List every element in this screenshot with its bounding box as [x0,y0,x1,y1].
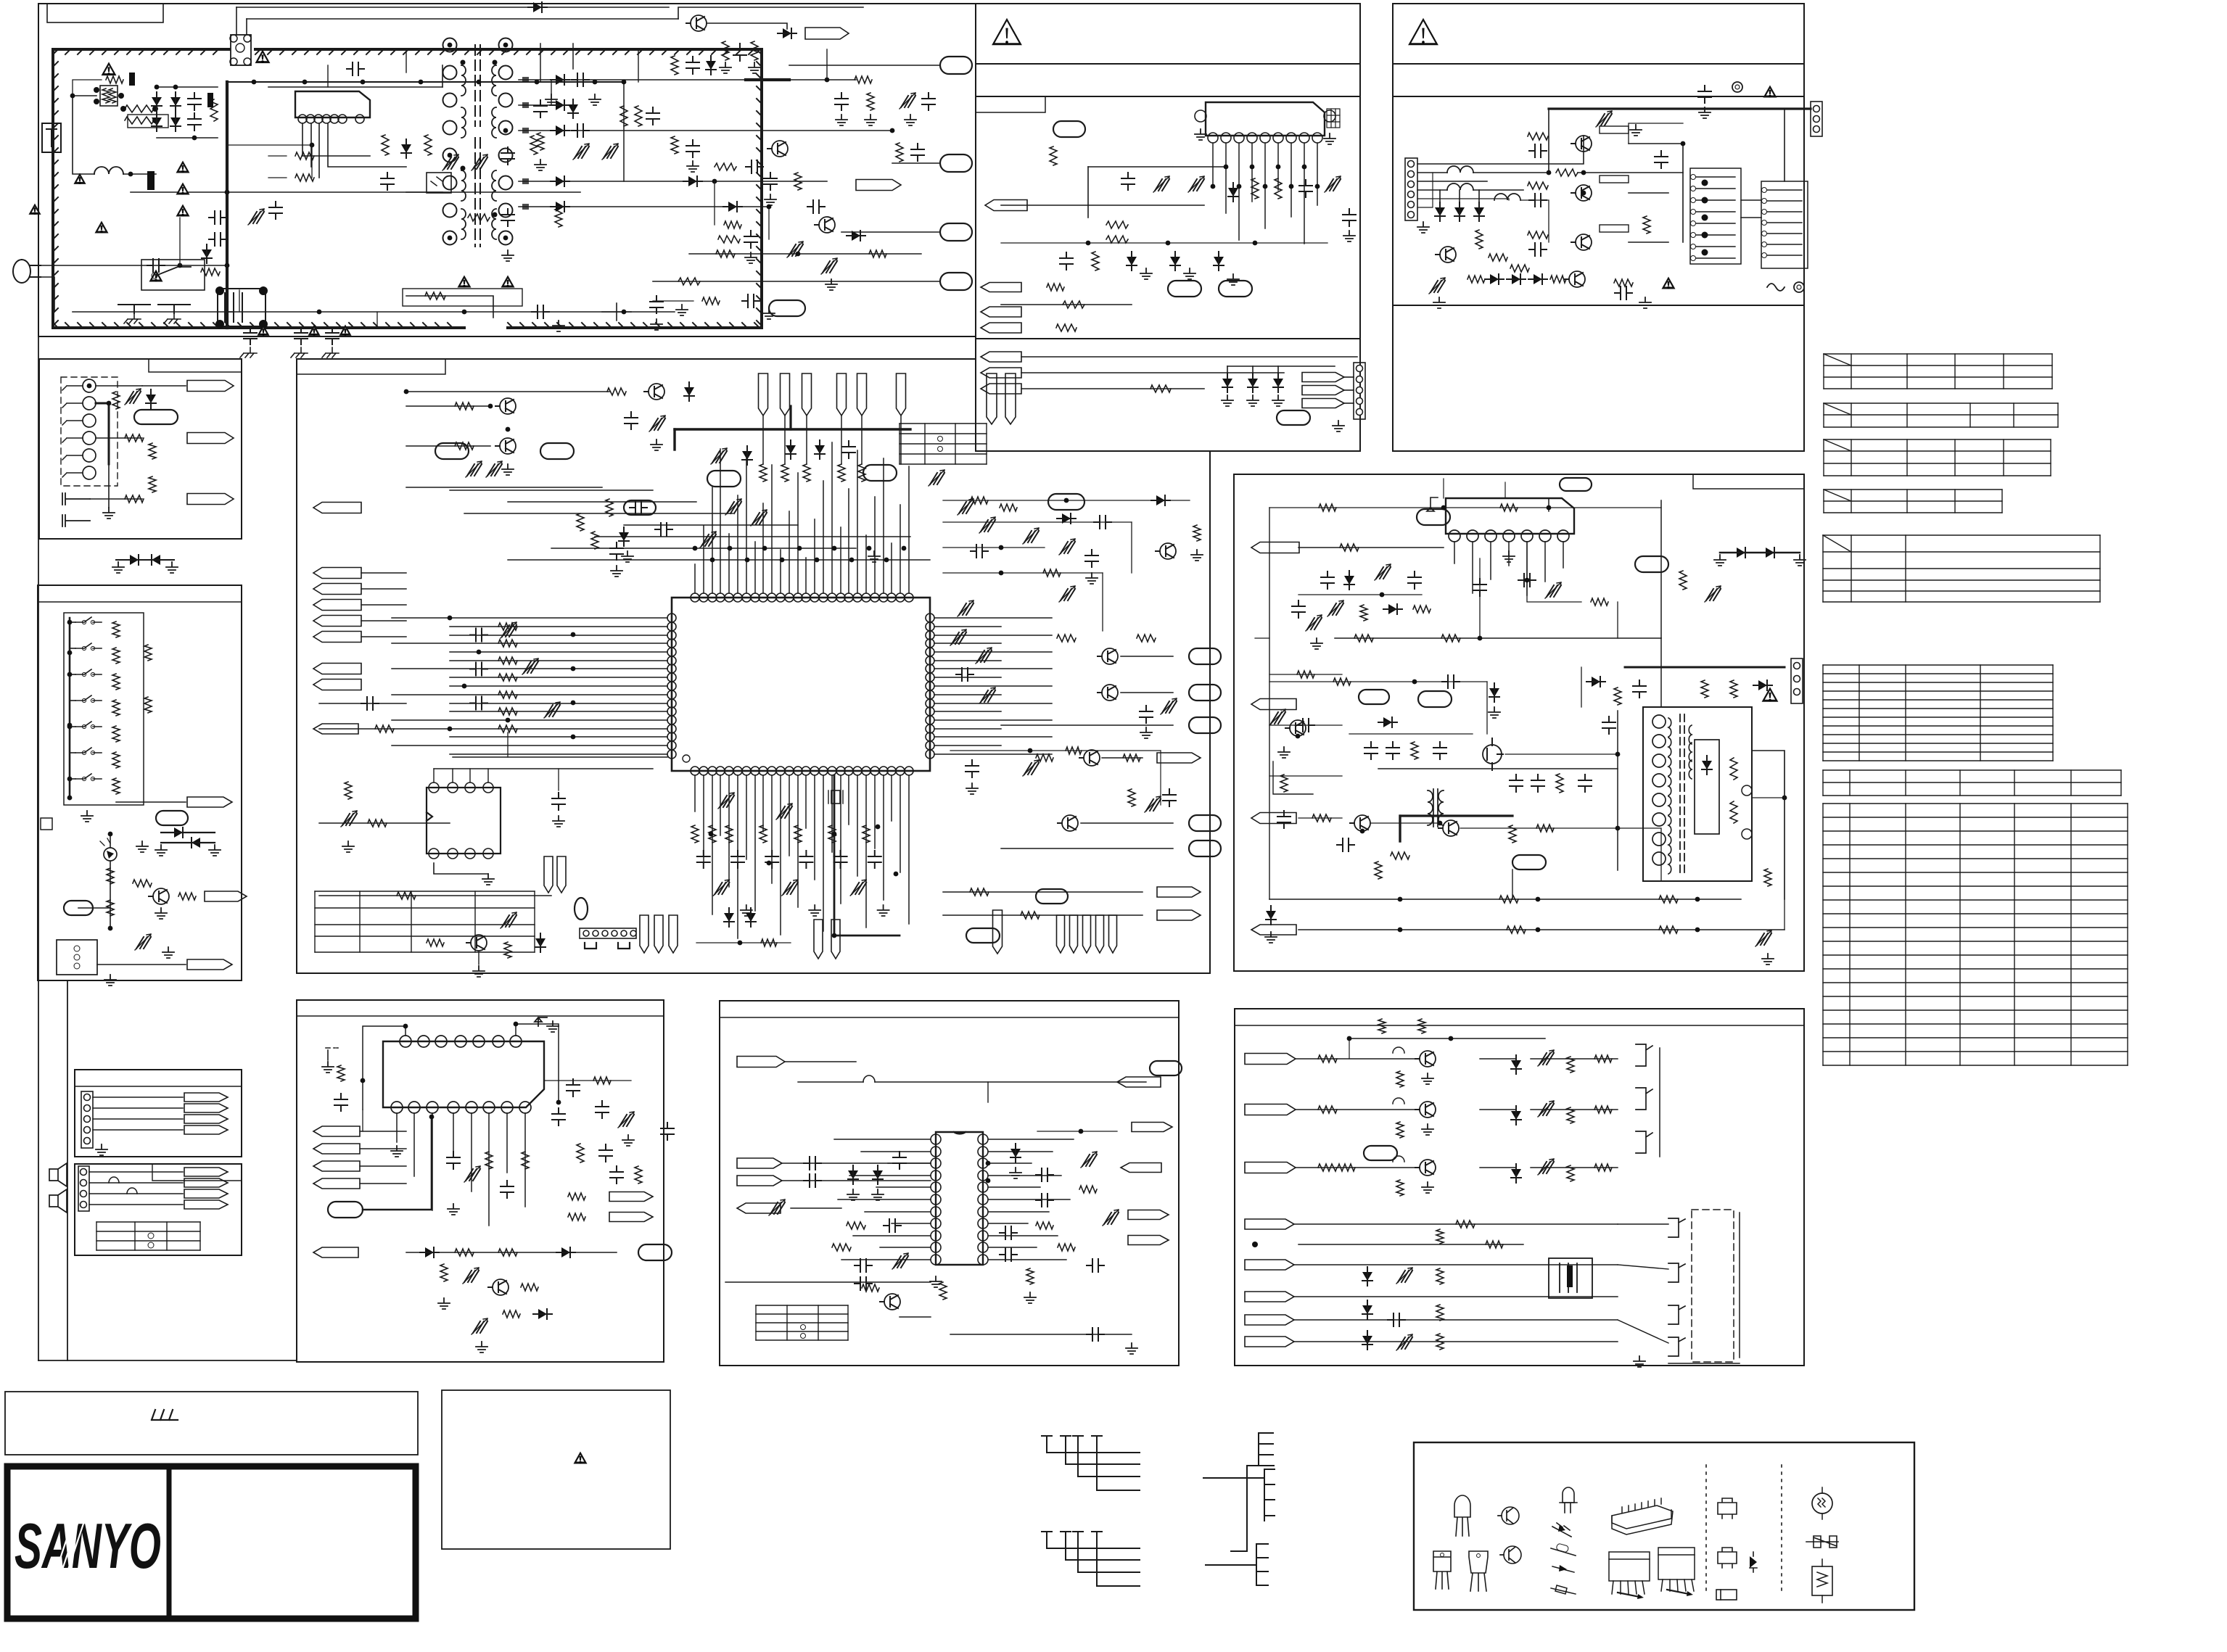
junction [361,80,366,85]
junction [361,1078,366,1083]
AV jack block frame [39,359,242,539]
connector arrow [609,1213,653,1222]
relay RL701 [231,35,251,65]
junction [986,1161,991,1166]
arrow mute [313,1247,358,1257]
bottom 6pin connector [580,928,636,938]
legend SMD diode [1750,1556,1757,1568]
junction [67,651,73,656]
wire HV to transformer [268,86,442,88]
IF table circles [801,1325,806,1330]
wire [1505,753,1618,755]
oval label [134,410,178,424]
pin wire [784,416,786,464]
ground [1227,274,1239,285]
ground [482,874,494,885]
resistor [1312,814,1331,822]
center arrow in 2 [313,584,361,595]
capacitor [501,209,514,226]
CRT arrow 2 [1245,1104,1296,1115]
wire spk [89,1193,183,1194]
deflection label box [1693,474,1804,489]
trimmer mark [1024,763,1039,775]
FBT core [1680,714,1684,874]
connector [1168,281,1201,297]
output connector B+ [940,57,972,74]
board pin top 8 [1005,373,1016,424]
trimmer/preset [1061,542,1075,553]
resistor [1411,742,1418,759]
wire [1252,366,1254,373]
wire [110,834,111,847]
resistor [724,221,741,228]
CRT drive transistor 1 [1420,1051,1436,1067]
warning triangle [73,173,86,184]
top-right header line [1393,63,1804,65]
diode [535,938,546,947]
wire [1131,522,1132,573]
trimmer mark [546,705,560,716]
resistor [1594,1164,1612,1171]
trimmer/preset [894,1256,908,1268]
ground [547,1021,559,1032]
pin group r4 [1109,915,1117,953]
arrow AUDIO [187,433,234,444]
audio IC side pins [1195,110,1206,122]
wire [1741,217,1761,218]
trimmer/preset [1757,933,1771,945]
junction [310,143,315,148]
resistor [1318,1055,1337,1062]
transistor Q410 [1102,648,1118,664]
legend transistor sym 1 [1502,1507,1519,1524]
ground [1140,727,1152,738]
diode pair box [161,833,215,843]
sound wires down [1212,143,1214,186]
bus junction [902,546,907,551]
key bus [69,618,71,799]
bottom cap [799,851,812,868]
diode [1388,604,1397,614]
trimmer/preset [473,1321,487,1333]
arrow [205,891,247,901]
trimmer mark [981,690,995,702]
connector arrow [313,680,361,690]
wire [90,498,142,500]
junction [252,80,257,85]
AC plug [13,260,41,283]
main IC right pins [926,614,934,622]
resistor [1436,1305,1444,1321]
junction [622,80,627,85]
resistor [678,278,700,285]
capacitor [1337,838,1354,851]
resistor [1333,678,1351,685]
arrow VIDEO [187,381,234,392]
key switch 1 [75,617,102,622]
bridge diode D702 [170,97,181,106]
ground [162,947,174,958]
resistor [1043,569,1061,577]
legend posistor [1812,1566,1832,1595]
resistor [397,892,416,899]
bus junction [745,558,750,563]
wire [943,547,1045,548]
wire [376,312,378,328]
junction [535,80,540,85]
trimmer/preset [487,464,502,476]
FBT windings [1668,718,1671,737]
ground [1634,1356,1645,1367]
ground [342,841,354,852]
wire bridge top bus [157,86,218,88]
wire [70,674,75,675]
legend diode sym [1552,1566,1574,1572]
junction [155,85,160,90]
jack contact 3 [83,414,96,427]
bottom cap [868,851,881,868]
warning triangle [28,204,41,215]
resistor [504,942,511,958]
FBT primary circles [1652,715,1666,728]
capacitor [1531,775,1544,792]
chassis ground [124,313,141,323]
junction [506,427,511,432]
speaker block label [152,1164,242,1181]
IF transistor [884,1294,900,1310]
wire [943,914,1143,916]
capacitor [630,501,647,514]
ground [1010,1168,1021,1178]
resistor [1507,926,1526,933]
capacitor [1036,1168,1053,1181]
resistor [1456,1221,1475,1228]
key switch 3 [75,669,102,674]
wire [1417,181,1487,182]
resistor [1567,1165,1574,1181]
secondary pad 3 [522,178,529,184]
jack contact 2 [83,397,96,410]
wire [1443,479,1444,498]
CRT lower arrow 5 [1245,1337,1294,1347]
resistor [1567,1057,1574,1073]
resistor [1594,1055,1612,1062]
diode [852,231,860,241]
CRT lower arrow 2 [1245,1260,1294,1270]
pin group r3 [1096,915,1104,953]
resistor [1137,635,1156,642]
bottom resistor [709,825,716,843]
wire R1 [943,500,1190,501]
wire [1227,366,1228,373]
chassis ground [164,313,181,323]
secondary wire [519,206,551,207]
fuse crt [1393,1098,1404,1104]
jack contact 1 [83,379,96,392]
vertical out transistor Q3 [1576,234,1592,250]
resistor [485,1152,493,1169]
resistor [1510,265,1529,272]
diode [815,445,825,454]
arrow spk [184,1178,228,1187]
pullup resistor [858,464,865,482]
resistor [1106,221,1128,228]
resistor [1436,1334,1444,1350]
key switch 6 [75,748,102,753]
focus resistor [1730,758,1737,780]
resistor [424,135,432,155]
wire [653,300,693,302]
top-middle section frame [976,4,1360,451]
capacitor [1343,209,1356,226]
wire feedback [406,191,580,193]
sound block frame [976,96,1360,339]
IC2 gnd wire [434,863,488,874]
output cap [552,1108,565,1126]
ground [687,161,699,172]
left wire [319,728,450,730]
cap near edge [661,1123,674,1140]
legend SMD 2 [1718,1548,1737,1568]
board pin [814,920,823,959]
resistor [1000,504,1017,511]
oval [1277,410,1310,425]
wire [70,726,75,727]
diode [1592,677,1600,687]
wire conn [93,1129,183,1131]
capacitor [625,412,638,429]
left column border lower [67,980,68,1360]
resistor [1614,687,1621,705]
legend dotted sep 1 [1705,1465,1707,1595]
wire [1473,172,1549,173]
capacitor [1388,1313,1405,1326]
capacitor [1529,243,1547,256]
junction [738,941,743,946]
resistor [425,292,445,300]
resistor [1659,926,1678,933]
audio amp IC body [383,1041,544,1107]
zener 2 [1248,379,1258,387]
left pin resistor [498,623,517,630]
board pin top 3 [802,373,812,416]
junction below IC [876,825,881,830]
resistor [1338,1164,1355,1171]
thick stub [789,406,791,429]
junction [403,1024,408,1029]
ground [1422,1124,1433,1135]
wire [1121,656,1173,657]
resistor [1047,284,1064,291]
wire [227,144,312,146]
resistor [337,1065,345,1081]
oval [156,811,188,825]
wire [406,391,609,392]
diode [1758,680,1767,690]
junction sound [1237,184,1242,189]
junction [1086,241,1091,246]
junction [67,777,73,782]
arrow [1302,386,1344,395]
vertical IC pin wires [1454,542,1455,563]
diode [1170,257,1180,265]
resistor [144,697,152,713]
harness tree B [1042,1531,1052,1532]
capacitor [1578,775,1592,792]
wire [1102,757,1143,759]
trimmer/preset [444,157,458,169]
wire [1752,797,1785,798]
IF arrow right [1117,1077,1161,1087]
ground [1126,1343,1137,1354]
IF oval [1150,1061,1182,1075]
resistor [1509,825,1516,843]
mute transistor [493,1279,509,1295]
ground [589,94,601,105]
ground [865,115,876,125]
bus junction [867,546,872,551]
resistor [1378,1019,1386,1033]
trimmer/preset [473,157,487,169]
wire bridge bottom bus [157,137,218,139]
bottom gnd [809,905,820,916]
zener r [1010,1149,1021,1157]
resistor [1297,671,1314,678]
jack dashed box [61,377,118,486]
junction [1695,897,1700,902]
main IC bottom pins [691,767,699,775]
wire AC live [41,265,54,266]
bus wire above IC [595,536,910,537]
capacitor [1121,173,1135,190]
table 2 [1824,403,2058,427]
6pin connector [1405,158,1417,220]
wire [1294,1341,1618,1342]
ground [1333,421,1344,431]
wire [1121,692,1173,693]
diode [1383,717,1392,727]
resistor [862,1284,879,1292]
legend fuse [1806,1536,1838,1548]
junction [108,926,113,931]
trimmer/preset [712,451,727,463]
SANYO logo stripes [57,1521,84,1569]
wire [110,862,111,928]
ground [1191,550,1203,561]
pin group r1 [1070,915,1078,953]
junction [1547,505,1552,511]
trimmer/preset [1398,1271,1412,1282]
xtal [831,790,840,804]
oval [1418,691,1452,707]
ground [1086,573,1098,584]
junction [1536,928,1541,933]
connector block label [75,1086,242,1087]
resistor [971,497,988,504]
CRT drive transistor 2 [1420,1102,1436,1118]
wire [1520,200,1549,242]
dark blob cap2 [129,73,135,86]
spk fuse 1 [109,1177,119,1183]
wire [1298,1244,1523,1245]
snubber cap [534,100,547,117]
legend diode arrows 1 [1552,1523,1571,1537]
wire [1578,172,1683,173]
startup resistor [295,152,314,160]
junction [462,310,467,315]
SIF IC right pins [978,1134,988,1144]
wire loop right [516,1024,559,1102]
small square [41,818,52,830]
junction [832,832,837,837]
wire [1298,817,1342,819]
wire [360,1165,406,1167]
capacitor [855,1277,872,1290]
ground [1247,395,1259,406]
bus junction [693,546,698,551]
warning triangle top-right [1408,18,1438,45]
key resistor 5 [112,726,120,742]
ground [502,250,514,261]
transistor vert drive [1290,720,1306,736]
posistor resistor 2 [109,88,116,103]
junction [108,832,113,837]
oval CRT [1364,1146,1397,1160]
key ladder frame [64,613,144,805]
wire spk [89,1182,183,1184]
secondary wire [519,79,551,80]
resistor [1318,1106,1337,1113]
ground [448,1204,459,1215]
transformer winding dots [461,60,466,65]
junction [622,310,627,315]
standby circuit parts [406,296,493,318]
resistor [201,268,220,276]
pin-conn 0 [544,856,553,893]
capacitor [1633,680,1646,698]
audio power label strip [297,1015,664,1017]
wire conn [93,1118,183,1120]
zener [848,1170,858,1179]
resistor [1251,178,1259,199]
junction [67,672,73,677]
wire [1617,602,1618,638]
resistor [794,173,802,190]
capacitor [1433,742,1446,759]
capacitor [1386,742,1399,759]
resistor [522,1152,529,1169]
warning triangle [308,325,320,336]
wire [638,49,639,82]
junction [1525,578,1530,583]
legend chip part [1716,1590,1737,1600]
res kb [144,645,152,661]
res [671,136,678,154]
ground [535,160,546,170]
wire [1741,199,1761,201]
capacitor [209,211,226,224]
wire [1504,482,1506,498]
speaker table [96,1222,200,1250]
diode [688,176,697,186]
ground [103,508,115,519]
wire to B+ connector [789,65,940,66]
capacitor [1529,194,1547,207]
dark blob cap [147,171,155,190]
capacitor [956,668,973,681]
4pin conn spk [78,1166,89,1211]
wire [361,572,406,574]
